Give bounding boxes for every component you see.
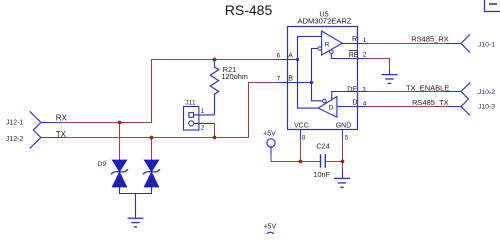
wire C24 to GND pin [325, 161, 342, 163]
receiver inverting input bubble [318, 47, 322, 51]
svg-text:D: D [352, 99, 357, 106]
capacitor C24 [321, 154, 326, 168]
svg-text:D: D [329, 104, 334, 111]
internal wire A bus [298, 37, 322, 109]
jumper J11 [184, 107, 215, 131]
svg-text:B: B [288, 76, 293, 83]
power +5V symbol (bottom) [263, 224, 276, 240]
svg-text:J10-3: J10-3 [478, 103, 495, 110]
svg-text:J12-2: J12-2 [6, 136, 24, 143]
wire +5V to VCC rail [270, 147, 272, 155]
internal wire A lead-in [288, 59, 298, 61]
wire J11 pin2 to TX [214, 124, 216, 138]
connector J12 chevron [30, 111, 41, 148]
ic body [288, 27, 358, 130]
svg-text:A: A [288, 52, 293, 59]
svg-text:TX: TX [56, 130, 67, 139]
resistor R21 [210, 60, 219, 115]
ground (D9) [128, 218, 144, 227]
svg-text:1: 1 [363, 37, 367, 44]
wire diode bottoms to ground [120, 187, 152, 218]
svg-text:5: 5 [345, 135, 349, 142]
wire GND pin 5 drop [342, 139, 344, 169]
connector J10-2 J10-3 chevron [461, 83, 470, 116]
ic U5 ADM3072EARZ [277, 10, 368, 142]
tvs diode D9 right [143, 160, 160, 187]
internal wire RE enable [331, 54, 357, 59]
pin 8 VCC stub [300, 130, 302, 140]
svg-text:ADM3072EARZ: ADM3072EARZ [297, 17, 351, 26]
svg-text:RX: RX [56, 114, 68, 123]
pin 3 DE stub [358, 91, 368, 93]
internal junction A [296, 58, 299, 61]
connector J10-1 chevron [461, 34, 470, 52]
svg-text:C24: C24 [316, 141, 329, 150]
wire RE to ground [368, 59, 390, 71]
svg-text:+5V: +5V [263, 224, 276, 231]
driver triangle D [318, 97, 337, 118]
svg-text:GND: GND [336, 122, 352, 129]
pin 5 GND stub [342, 130, 344, 140]
internal junction B [310, 81, 313, 84]
svg-text:2: 2 [363, 52, 367, 59]
ground (C24/GND) [334, 169, 350, 187]
svg-text:8: 8 [302, 135, 306, 142]
junction on TX at diode [150, 136, 154, 140]
wire TX_ENABLE [368, 91, 447, 93]
svg-text:1: 1 [201, 108, 205, 115]
svg-text:J10-1: J10-1 [478, 42, 495, 49]
svg-text:RS485_TX: RS485_TX [412, 98, 449, 107]
svg-text:D9: D9 [98, 161, 107, 168]
svg-text:120ohm: 120ohm [222, 72, 248, 81]
internal wire B bus [312, 49, 323, 101]
svg-text:DE: DE [347, 86, 357, 93]
svg-text:J11: J11 [185, 100, 196, 107]
svg-text:R: R [325, 42, 330, 49]
junction VCC rail pin 8 [300, 139, 302, 162]
svg-text:3: 3 [362, 87, 366, 94]
svg-text:R: R [352, 36, 357, 43]
svg-text:TX_ENABLE: TX_ENABLE [406, 84, 449, 93]
pin 2 RE stub [358, 58, 368, 60]
wire RX net [41, 60, 278, 123]
junction on RX at diode [118, 121, 122, 125]
svg-text:J10-2: J10-2 [478, 89, 495, 96]
internal wire B lead-in [288, 82, 312, 84]
svg-text:6: 6 [277, 52, 281, 59]
pin 7 B stub [278, 82, 288, 84]
svg-text:+5V: +5V [263, 130, 276, 137]
wire RS485_RX [368, 43, 447, 45]
svg-text:7: 7 [277, 76, 281, 83]
svg-text:2: 2 [201, 124, 205, 131]
svg-text:VCC: VCC [294, 122, 309, 129]
tvs diode D9 left [111, 160, 128, 187]
svg-text:RS485_RX: RS485_RX [411, 35, 449, 44]
receiver enable bubble [330, 50, 334, 54]
sheet frame corner box [485, 0, 500, 12]
junction GND rail [341, 160, 345, 164]
wire left diode drop [119, 123, 121, 161]
svg-text:RE: RE [349, 52, 359, 59]
junction on TX at J11 [213, 136, 217, 140]
pin 4 D stub [358, 106, 368, 108]
internal wire R output [342, 43, 357, 45]
driver inverting output bubble [323, 99, 327, 103]
internal wire D input [337, 106, 358, 108]
ground (RE) [382, 71, 398, 84]
svg-text:10nF: 10nF [313, 170, 330, 179]
receiver triangle R [322, 31, 343, 55]
pin 1 R stub [358, 43, 368, 45]
svg-text:4: 4 [363, 100, 367, 107]
pin 6 A stub [278, 59, 288, 61]
power +5V symbol [263, 130, 276, 147]
junction on A wire at R21 [213, 58, 217, 62]
internal wire DE enable [332, 92, 358, 100]
svg-text:J12-1: J12-1 [6, 120, 24, 127]
wire RS485_TX [368, 106, 447, 108]
wire right diode drop [151, 138, 153, 161]
wire TX net [41, 83, 278, 138]
svg-text:RS-485: RS-485 [225, 2, 273, 18]
